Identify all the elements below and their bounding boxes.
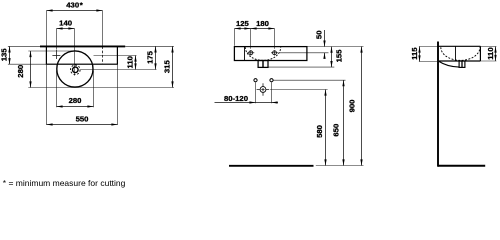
arrows 430 <box>47 9 53 11</box>
bowl center horizontal centerline <box>81 69 157 71</box>
mount hole right extension down <box>271 82 273 103</box>
tap level extension right <box>279 52 329 54</box>
arrows 155 <box>330 47 332 53</box>
side dim 115 bottom extension <box>419 61 437 63</box>
drain inner circle <box>73 67 79 73</box>
dim 110 line right <box>495 47 497 62</box>
arrows 900 <box>360 47 362 53</box>
svg-text:280: 280 <box>69 96 82 105</box>
shelf rectangle <box>46 46 117 64</box>
dim 315 line <box>172 46 174 87</box>
arrows 110 right <box>494 47 496 53</box>
arrows 125 <box>235 27 241 29</box>
svg-text:80-120: 80-120 <box>224 94 248 103</box>
wall line plan (thick) <box>40 45 125 47</box>
dim 175 line <box>155 46 157 69</box>
dim 50 line upper <box>324 30 326 47</box>
dim 280h left extension <box>56 71 58 108</box>
dim 140 line <box>57 28 75 30</box>
siphon cross vertical dashed <box>262 83 264 95</box>
side underside curve <box>439 61 459 67</box>
svg-text:* = minimum measure for cuttin: * = minimum measure for cutting <box>3 178 126 188</box>
drain bottom extension right <box>268 66 334 68</box>
dimension lines <box>10 11 496 166</box>
mount hole left extension down <box>255 82 257 103</box>
svg-text:115: 115 <box>410 47 419 60</box>
siphon level extension right <box>270 89 328 91</box>
side basin bottom line <box>439 60 481 62</box>
front rectangle <box>234 47 307 61</box>
dim 550 line <box>47 124 118 126</box>
mount hole level extension right <box>273 79 345 81</box>
dim 135 line <box>9 46 11 64</box>
dim 125-180 line <box>235 28 275 30</box>
dim 280v top extension <box>28 50 74 52</box>
tap line right extension <box>94 55 137 57</box>
svg-text:110: 110 <box>486 47 495 59</box>
tap hole left front <box>249 51 253 55</box>
dim 155 line <box>331 47 333 68</box>
svg-text:580: 580 <box>315 125 324 138</box>
tap hole right bar <box>271 52 278 54</box>
dim 280v bottom extension shared with 315 <box>28 87 174 89</box>
siphon circle <box>260 87 266 93</box>
svg-text:180: 180 <box>256 19 269 28</box>
dim 135 bottom extension <box>8 63 46 65</box>
dim 580 line <box>325 90 327 166</box>
svg-text:155: 155 <box>334 49 343 63</box>
svg-text:280: 280 <box>16 65 25 78</box>
dim 280v line <box>30 51 32 88</box>
arrows 280v <box>29 51 31 57</box>
cutting dashed line <box>102 46 104 64</box>
dim 115 line <box>419 47 421 62</box>
dim 430 line <box>47 10 103 12</box>
mounting hole right <box>270 79 273 82</box>
svg-text:140: 140 <box>59 19 72 28</box>
floor line middle (thick) <box>229 165 314 167</box>
dim 900 line <box>361 47 363 166</box>
mounting hole left <box>254 79 257 82</box>
side dim 115 top extension <box>419 46 437 48</box>
side dim 110 top extension <box>480 46 496 48</box>
dashed bowl arc front <box>245 47 280 60</box>
mid dim 125 left extension <box>234 29 236 46</box>
arrows 650 <box>342 80 344 86</box>
svg-text:50: 50 <box>314 31 323 40</box>
dim 430 left extension <box>46 11 48 46</box>
front divider line <box>244 47 246 61</box>
svg-text:175: 175 <box>145 50 154 64</box>
dim 140 left extension <box>56 29 58 50</box>
mid dim middle extension <box>250 29 252 49</box>
side dashed bowl profile <box>441 47 480 60</box>
side dim 110 bottom extension <box>480 60 496 62</box>
dim 550 right extension <box>117 65 119 125</box>
dim 650 line <box>343 80 345 165</box>
tap hole left bar <box>247 52 254 54</box>
svg-text:900: 900 <box>347 100 356 113</box>
dim 280h right extension <box>93 71 95 108</box>
arrows 50 outside <box>323 41 325 47</box>
mid dim 180 right extension <box>274 29 276 49</box>
floor thin extension <box>316 165 364 167</box>
side shelf front vertical <box>455 46 457 61</box>
dim 550 left extension <box>46 65 48 125</box>
dim 135 top extension <box>8 45 40 47</box>
tap hole right front <box>273 51 277 55</box>
dim 110 line left view <box>135 56 137 70</box>
drain vertical centerline <box>74 29 76 76</box>
side basin top line <box>437 45 480 47</box>
thin extension / center lines <box>8 11 497 166</box>
svg-text:315: 315 <box>162 60 171 74</box>
arrows 115 <box>418 47 420 53</box>
arrowheads <box>8 9 496 165</box>
rect top extension right to 900 <box>307 46 364 48</box>
side wall vertical (thick) <box>437 42 439 167</box>
arrows 580 <box>324 90 326 96</box>
dim 50 line lower <box>324 53 326 59</box>
arrows 175 <box>154 46 156 52</box>
drain outer circle <box>71 65 81 75</box>
side trap inner line 1 <box>461 61 463 67</box>
arrows 140 <box>57 27 63 29</box>
floor line side (thick) <box>438 165 485 167</box>
svg-text:550: 550 <box>76 115 89 124</box>
tap hole cross vertical <box>56 50 58 59</box>
drain box inner line 1 <box>262 61 264 68</box>
dim 430 right extension <box>102 11 104 46</box>
svg-text:135: 135 <box>0 48 8 62</box>
main outlines <box>40 42 485 167</box>
dim 280h line <box>57 106 94 108</box>
drain box front <box>258 61 268 68</box>
arrows 135 <box>8 46 10 52</box>
arrows 180 <box>251 27 257 29</box>
svg-text:430 *: 430 * <box>66 1 82 10</box>
svg-text:125: 125 <box>236 19 250 28</box>
arrows 315 <box>171 46 173 52</box>
side trap box <box>459 61 465 67</box>
arrows 80-120 outside <box>249 101 255 103</box>
siphon cross horizontal dashed <box>257 89 270 91</box>
side basin front edge <box>479 46 481 61</box>
bowl circle <box>57 51 93 87</box>
arrows 280h <box>57 105 63 107</box>
back line right extension <box>125 45 174 47</box>
dim 80-120 line <box>215 102 279 104</box>
arrows 550 <box>47 123 53 125</box>
arrows 110 left view <box>134 56 136 62</box>
tap hole cross horizontal <box>52 55 60 57</box>
svg-text:650: 650 <box>332 124 341 137</box>
svg-text:110: 110 <box>126 56 135 68</box>
